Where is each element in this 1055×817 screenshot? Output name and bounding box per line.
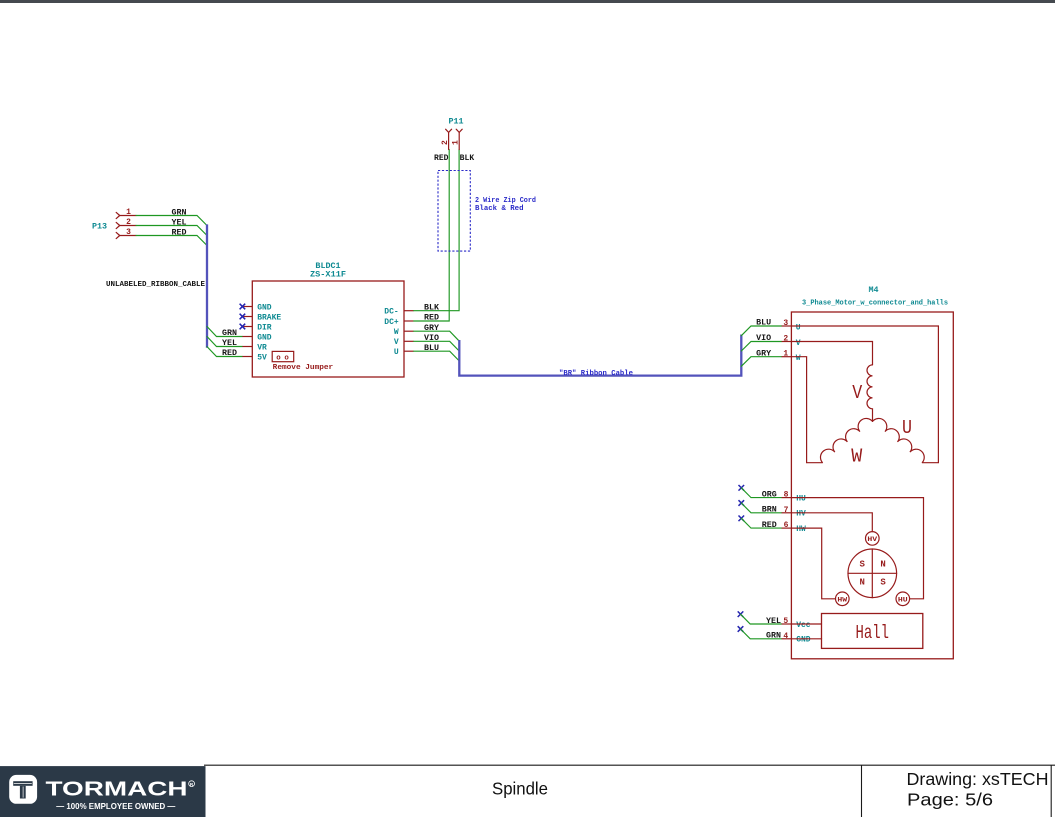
svg-text:6: 6 — [784, 521, 789, 530]
svg-text:RED: RED — [172, 228, 187, 237]
svg-text:RED: RED — [222, 349, 237, 358]
svg-text:HU: HU — [898, 596, 908, 603]
title block top line — [204, 764, 1055, 766]
no-connect X RED — [739, 516, 745, 522]
no-connect X BRN — [739, 500, 745, 506]
M4 net V to winding — [791, 342, 872, 365]
wire VIO V to bus — [414, 341, 460, 351]
M4 net GND — [791, 638, 821, 640]
winding W — [820, 418, 872, 462]
svg-text:— 100% EMPLOYEE OWNED —: — 100% EMPLOYEE OWNED — — [56, 801, 175, 811]
svg-text:DC-: DC- — [384, 308, 398, 317]
hall sensor HV circle — [866, 532, 880, 546]
svg-text:4: 4 — [783, 632, 788, 641]
jumper box — [272, 351, 294, 361]
svg-text:M4: M4 — [868, 285, 878, 295]
zip cord dashed box — [438, 171, 470, 252]
svg-text:GND: GND — [257, 303, 272, 312]
svg-text:Vcc: Vcc — [796, 621, 811, 630]
wire BLK DC- to P11 — [414, 150, 459, 311]
no-connect X YEL — [738, 611, 744, 617]
svg-text:RED: RED — [434, 154, 449, 163]
svg-text:P11: P11 — [448, 116, 463, 126]
Tormach logo background — [0, 766, 206, 817]
svg-text:GND: GND — [796, 636, 811, 645]
wire BLU bus to M4 pin 3 — [741, 326, 781, 336]
svg-text:RED: RED — [762, 521, 777, 530]
no-connect X ORG — [739, 485, 745, 491]
svg-text:BRN: BRN — [762, 506, 777, 515]
M4 net HW — [791, 528, 835, 599]
svg-text:2: 2 — [441, 140, 450, 145]
wire YEL to M4 pin 5 — [741, 614, 782, 624]
bus UNLABELED_RIBBON_CABLE — [206, 226, 208, 347]
svg-text:V: V — [796, 339, 801, 348]
svg-text:Drawing: xsTECH: Drawing: xsTECH — [907, 769, 1049, 789]
svg-text:o: o — [276, 355, 281, 363]
svg-text:U: U — [394, 348, 399, 357]
BLDC1 left pin stubs — [242, 307, 252, 357]
svg-text:1: 1 — [451, 140, 460, 145]
top toolbar bar — [0, 0, 1055, 3]
wire GRN to M4 pin 4 — [741, 629, 782, 639]
svg-text:VIO: VIO — [756, 334, 771, 343]
svg-text:Page: 5/6: Page: 5/6 — [907, 790, 993, 810]
wire RED DC+ to P11 — [414, 150, 450, 322]
wire RED from P13 pin3 to bus — [136, 236, 207, 246]
winding V — [867, 365, 873, 422]
svg-text:BRAKE: BRAKE — [257, 313, 281, 322]
svg-text:P13: P13 — [92, 222, 107, 232]
M4 net U to winding — [791, 326, 938, 463]
svg-text:8: 8 — [784, 491, 789, 500]
motor M4 box — [791, 312, 953, 659]
svg-text:ZS-X11F: ZS-X11F — [310, 269, 346, 279]
svg-text:GRN: GRN — [172, 208, 187, 217]
svg-text:U: U — [796, 323, 801, 332]
svg-text:"BR" Ribbon Cable: "BR" Ribbon Cable — [559, 370, 633, 378]
wire GRY bus to M4 pin 1 — [741, 357, 781, 367]
registered mark — [189, 781, 195, 787]
svg-text:GRN: GRN — [222, 329, 237, 338]
svg-text:N: N — [859, 578, 864, 588]
svg-text:HW: HW — [796, 525, 806, 534]
winding U — [873, 418, 925, 462]
svg-text:U: U — [902, 417, 912, 439]
svg-text:GND: GND — [257, 333, 272, 342]
title block right line — [1050, 765, 1052, 817]
svg-text:5: 5 — [783, 617, 788, 626]
svg-text:7: 7 — [784, 506, 789, 515]
svg-text:Hall: Hall — [855, 622, 889, 644]
wire BRN to M4 pin 7 — [741, 503, 781, 513]
svg-text:HV: HV — [796, 510, 806, 519]
wire BLU U to bus — [414, 351, 460, 361]
svg-text:GRN: GRN — [766, 632, 781, 641]
svg-text:VR: VR — [257, 343, 267, 352]
svg-text:Remove Jumper: Remove Jumper — [273, 364, 334, 372]
svg-text:DIR: DIR — [257, 323, 272, 332]
svg-text:5V: 5V — [257, 353, 267, 362]
BLDC1 right pin stubs — [404, 311, 414, 352]
M4 pin stubs — [782, 326, 792, 639]
wire GRY W to bus — [414, 331, 460, 341]
wire GRN bus to BLDC1 GND — [207, 327, 242, 337]
svg-text:V: V — [852, 382, 862, 404]
svg-text:N: N — [880, 560, 885, 570]
svg-text:ORG: ORG — [762, 491, 777, 500]
svg-text:o: o — [284, 355, 289, 363]
no-connect X on GND — [240, 304, 246, 330]
svg-text:Spindle: Spindle — [492, 778, 548, 798]
svg-text:BLU: BLU — [756, 319, 771, 328]
wire RED bus to BLDC1 5V — [207, 347, 242, 357]
M4 net W to winding — [791, 357, 822, 463]
svg-text:3: 3 — [126, 228, 131, 237]
svg-text:YEL: YEL — [766, 617, 781, 626]
wire YEL from P13 pin2 to bus — [136, 226, 207, 236]
wire VIO bus to M4 pin 2 — [741, 342, 781, 352]
rotor cross lines — [871, 549, 873, 598]
svg-text:BLU: BLU — [424, 344, 439, 353]
svg-text:VIO: VIO — [424, 334, 439, 343]
bus BR ribbon cable — [459, 336, 741, 376]
svg-text:GRY: GRY — [424, 324, 439, 333]
wire RED to M4 pin 6 — [741, 518, 781, 528]
M4 net HV — [791, 513, 872, 532]
wire GRN from P13 pin1 to bus — [136, 216, 207, 226]
svg-text:RED: RED — [424, 314, 439, 323]
title block divider — [861, 765, 863, 817]
svg-text:UNLABELED_RIBBON_CABLE: UNLABELED_RIBBON_CABLE — [106, 281, 205, 289]
hall sensor HW circle — [836, 592, 850, 606]
connector P13 — [116, 212, 136, 238]
Tormach logo T badge — [9, 775, 37, 804]
svg-text:V: V — [394, 338, 399, 347]
svg-text:W: W — [796, 354, 801, 363]
M4 net Vcc — [791, 623, 821, 625]
svg-text:DC+: DC+ — [384, 318, 399, 327]
svg-text:HU: HU — [796, 495, 806, 504]
svg-text:S: S — [859, 560, 865, 570]
svg-text:YEL: YEL — [222, 339, 237, 348]
no-connect X GRN — [738, 626, 744, 632]
rotor magnet circle — [848, 549, 897, 598]
svg-text:GRY: GRY — [756, 349, 771, 358]
svg-text:3_Phase_Motor_w_connector_and_: 3_Phase_Motor_w_connector_and_halls — [802, 299, 948, 307]
svg-text:Black & Red: Black & Red — [475, 205, 524, 213]
svg-text:W: W — [851, 446, 862, 468]
svg-text:HV: HV — [867, 536, 877, 543]
svg-text:YEL: YEL — [172, 218, 187, 227]
svg-text:2: 2 — [126, 218, 131, 227]
svg-text:HW: HW — [837, 596, 847, 603]
svg-text:BLK: BLK — [424, 303, 439, 312]
svg-text:1: 1 — [126, 208, 131, 217]
M4 net HU — [791, 498, 923, 599]
wire YEL bus to BLDC1 VR — [207, 337, 242, 347]
svg-text:BLK: BLK — [460, 154, 475, 163]
hall sensor HU circle — [896, 592, 910, 606]
BLDC1 speed controller box — [252, 281, 404, 377]
wire ORG to M4 pin 8 — [741, 488, 781, 498]
svg-text:TORMACH: TORMACH — [46, 779, 188, 801]
Hall block — [822, 614, 923, 649]
svg-text:W: W — [394, 328, 399, 337]
svg-text:S: S — [880, 578, 886, 588]
